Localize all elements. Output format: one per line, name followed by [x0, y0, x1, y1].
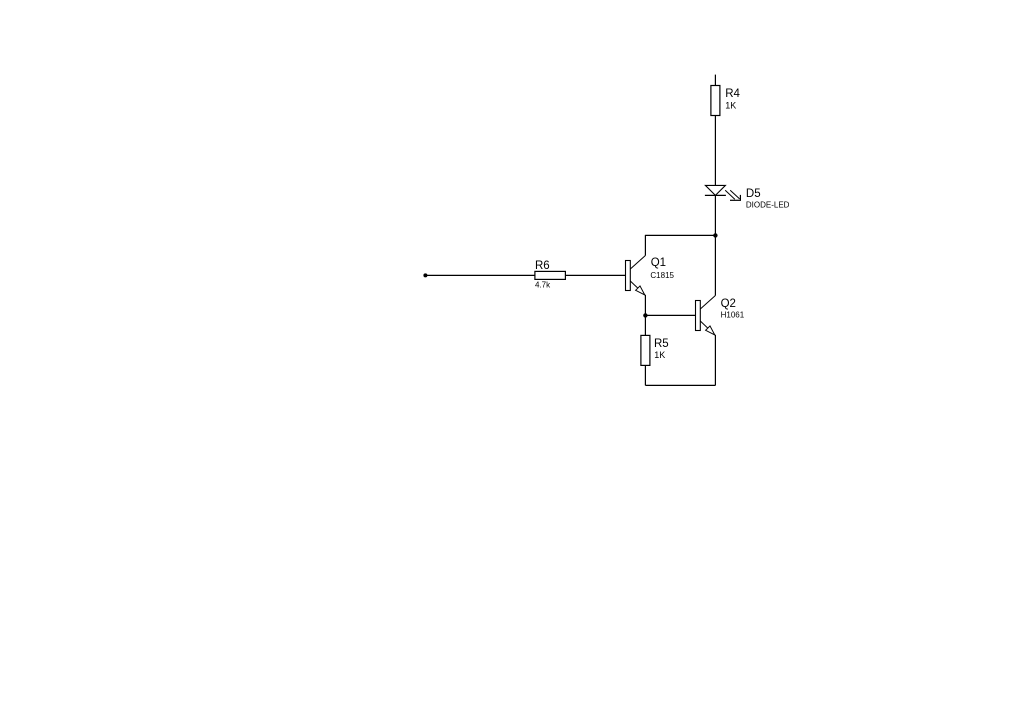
LED arrow head horizontal: [730, 199, 741, 201]
Q2 emitter arrowhead: [706, 326, 715, 335]
wire R5 to bottom: [644, 365, 646, 385]
diode D5 cathode bar: [705, 194, 726, 196]
transistor Q1 base bar: [626, 261, 631, 291]
resistor R6: [535, 271, 566, 279]
svg-text:C1815: C1815: [650, 271, 674, 280]
wire R6 to Q1 base: [565, 274, 625, 276]
wire node to Q2 base: [645, 314, 695, 316]
LED arrow 2 shaft: [730, 190, 739, 199]
svg-text:H1061: H1061: [721, 310, 745, 319]
svg-text:1K: 1K: [654, 350, 665, 360]
svg-text:DIODE-LED: DIODE-LED: [746, 201, 790, 210]
svg-text:D5: D5: [746, 188, 761, 200]
Q2 emitter diagonal: [700, 321, 715, 335]
node junction emitter/base net: [643, 313, 647, 317]
wire node to Q1 collector corner: [645, 234, 715, 236]
node junction top (collector net): [713, 233, 717, 237]
wire node down to R5: [644, 315, 646, 335]
svg-text:4.7k: 4.7k: [535, 281, 551, 290]
svg-text:R6: R6: [535, 260, 550, 272]
svg-text:R4: R4: [725, 88, 740, 100]
wire vertical down to Q1 collector diagonal: [644, 235, 646, 256]
wire bottom horizontal: [645, 384, 715, 386]
wire input to R6: [425, 274, 535, 276]
wire R4 to D5: [714, 116, 716, 186]
svg-text:Q1: Q1: [651, 257, 666, 269]
wire top stub above R4: [714, 75, 716, 86]
svg-text:Q2: Q2: [721, 298, 736, 310]
Q1 emitter arrowhead: [636, 286, 645, 295]
transistor Q2 base bar: [696, 301, 701, 331]
LED arrow 1 shaft: [725, 190, 735, 199]
resistor R4: [711, 86, 720, 116]
wire D5 to node: [714, 195, 716, 235]
svg-text:1K: 1K: [725, 100, 736, 110]
diode D5 (LED) triangle: [705, 185, 725, 195]
Q1 collector diagonal: [630, 256, 645, 270]
input node dot: [423, 273, 427, 277]
LED arrow head vertical: [739, 195, 741, 200]
wire Q2 collector up to node: [714, 235, 716, 295]
Q1 emitter diagonal: [630, 281, 645, 295]
resistor R5: [641, 335, 650, 365]
Q2 collector diagonal: [700, 296, 715, 310]
wire Q2 emitter down: [714, 335, 716, 386]
wire Q1 emitter to node: [644, 295, 646, 316]
svg-text:R5: R5: [654, 338, 669, 350]
